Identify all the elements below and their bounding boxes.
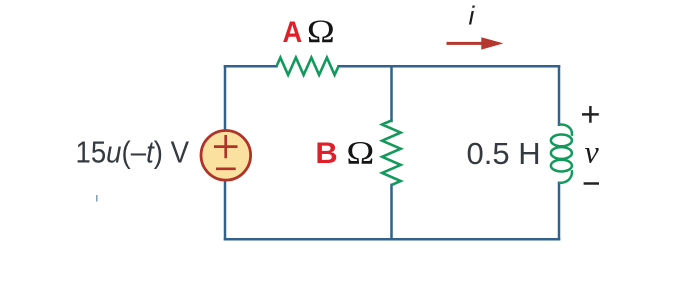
svg-text:A: A — [283, 16, 303, 49]
inductor L coil bottom hook — [559, 170, 572, 183]
inductor L coil loop 2 — [551, 147, 572, 159]
inductor L coil loop 3 — [551, 160, 572, 172]
wire top-right segment — [339, 65, 560, 68]
resistor A (horizontal zigzag) — [277, 58, 339, 75]
svg-text:B: B — [315, 137, 337, 170]
current arrow i — [447, 37, 504, 49]
wire right vertical upper — [558, 66, 561, 125]
svg-text:0.5 H: 0.5 H — [467, 136, 541, 171]
svg-text:15u(–t) V: 15u(–t) V — [76, 135, 190, 170]
wire middle vertical upper — [390, 66, 393, 121]
voltage source plus sign — [214, 135, 238, 158]
polarity minus sign (v) — [584, 182, 599, 185]
svg-text:Ω: Ω — [346, 135, 374, 171]
voltage source circle — [201, 131, 251, 181]
wire top-left segment — [225, 65, 277, 68]
svg-text:i: i — [469, 1, 476, 31]
wire bottom segment — [225, 238, 559, 241]
wire middle vertical lower — [390, 185, 393, 239]
polarity plus sign (v) — [582, 106, 599, 123]
voltage source minus sign — [216, 167, 236, 170]
inductor L coil loop 1 — [551, 135, 572, 147]
inductor L coil top hook — [559, 125, 572, 136]
wire right vertical lower — [558, 183, 561, 239]
wire left vertical — [224, 66, 227, 239]
stray tick mark — [96, 195, 98, 202]
svg-text:v: v — [585, 134, 600, 170]
svg-text:Ω: Ω — [307, 14, 335, 50]
resistor B (vertical zigzag) — [382, 121, 401, 186]
